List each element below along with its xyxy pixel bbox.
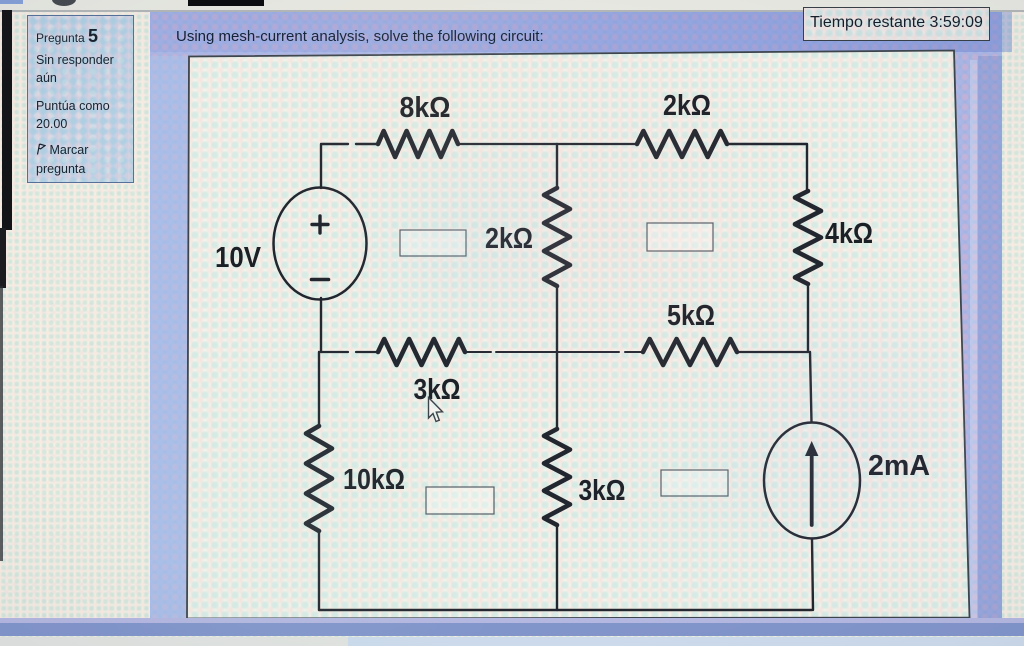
resistor 4k right vertical <box>795 191 821 352</box>
answer box mesh3 <box>426 487 494 514</box>
bottom taskbar band <box>0 623 1024 636</box>
resistor 8k <box>378 131 458 157</box>
svg-text:4kΩ: 4kΩ <box>825 218 873 250</box>
content top band tint <box>150 12 1012 52</box>
resistor 5k <box>643 339 737 365</box>
blue square top-left <box>0 0 23 4</box>
wire mid-right <box>737 351 808 353</box>
answer box mesh1 <box>400 230 466 256</box>
sidebar question info box <box>27 15 134 183</box>
svg-text:2mA: 2mA <box>868 450 930 482</box>
plus sign <box>312 216 328 233</box>
black bar top <box>188 0 264 6</box>
dark circle glyph top <box>52 0 76 6</box>
wire below source <box>320 298 322 352</box>
top strip above page <box>0 0 1024 10</box>
minus sign <box>312 278 329 282</box>
gray separator line <box>0 10 1024 13</box>
resistor 2k top <box>637 131 727 157</box>
resistor 3k bottom vertical <box>544 352 570 610</box>
black bar left thin tail <box>0 286 3 561</box>
wire mid-left <box>321 351 378 353</box>
svg-text:8kΩ: 8kΩ <box>400 92 451 124</box>
resistor 10k bottom-left vertical <box>306 352 332 610</box>
svg-text:2kΩ: 2kΩ <box>663 90 711 122</box>
wire bottom <box>319 609 812 611</box>
resistor 3k middle <box>378 339 465 365</box>
bottom violet line <box>0 618 1024 623</box>
svg-text:5kΩ: 5kΩ <box>667 300 715 332</box>
voltage source V1 10V <box>274 188 367 300</box>
black bar left lower taper <box>0 228 6 288</box>
tiempo restante box <box>803 7 990 41</box>
content left stripe tint <box>150 56 188 623</box>
answer box mesh4 <box>661 470 728 496</box>
mouse cursor <box>429 398 443 422</box>
content right dark band <box>978 56 1002 623</box>
wire top-right corner <box>727 144 807 191</box>
white box border frame <box>187 51 970 619</box>
current source I1 2mA <box>764 352 860 610</box>
wire mid-center <box>465 351 643 353</box>
black bar left edge <box>2 10 12 230</box>
bottom lighter strip <box>0 637 1024 646</box>
content blue block <box>150 12 1002 623</box>
svg-text:3kΩ: 3kΩ <box>414 374 461 406</box>
wire top-left segment <box>321 144 378 188</box>
question text <box>176 28 544 45</box>
svg-text:10kΩ: 10kΩ <box>343 464 405 496</box>
wire top-mid segment <box>458 143 637 145</box>
svg-text:10V: 10V <box>215 242 262 274</box>
answer box mesh2 <box>647 223 713 251</box>
resistor 2k middle vertical <box>544 144 570 352</box>
bottom left strip tint <box>0 637 348 646</box>
svg-text:2kΩ: 2kΩ <box>485 223 533 255</box>
content right band tint <box>970 60 977 623</box>
svg-text:3kΩ: 3kΩ <box>579 475 626 507</box>
